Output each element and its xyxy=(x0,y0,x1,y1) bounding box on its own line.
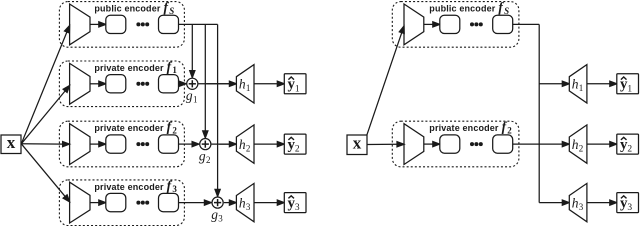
svg-text:x: x xyxy=(353,134,362,153)
svg-text:1: 1 xyxy=(295,84,300,94)
svg-text:3: 3 xyxy=(295,203,300,213)
svg-text:3: 3 xyxy=(627,203,632,213)
svg-text:2: 2 xyxy=(627,145,632,155)
svg-text:2: 2 xyxy=(295,145,300,155)
svg-text:1: 1 xyxy=(627,84,632,94)
svg-text:x: x xyxy=(7,133,16,152)
